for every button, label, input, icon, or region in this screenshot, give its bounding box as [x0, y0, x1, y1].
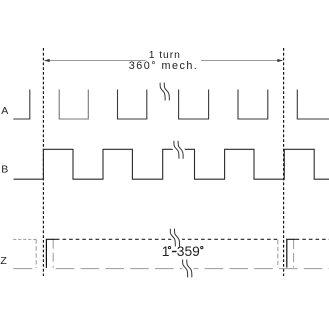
svg-text:360° mech.: 360° mech. [129, 60, 197, 72]
break mark B [174, 141, 183, 159]
break mark A [160, 83, 169, 101]
wire: Z low level gray dashed [56, 268, 329, 270]
dimension line "1 turn" [45, 60, 283, 62]
wire: Z gray falling edge option at 53 [52, 240, 54, 268]
turn marker left (dotted vertical) [42, 48, 44, 276]
wire: A initial low segment + rising edge [13, 90, 30, 120]
break mark Z bottom [183, 260, 192, 278]
wire: A low pulse 4 [238, 90, 268, 120]
wire: A low pulse 3 [179, 90, 209, 120]
svg-text:Z: Z [0, 255, 7, 267]
wire: Z high level dashed black [56, 238, 278, 240]
arrowhead right [277, 59, 283, 62]
wire: A low pulse 1 [59, 90, 88, 120]
arrowhead left [44, 59, 50, 62]
wire: Z low level gray dash left [13, 268, 32, 270]
break mark halo B [174, 141, 183, 159]
break mark halo Z bottom [183, 260, 192, 278]
wire: A low pulse 2 [118, 90, 147, 120]
wire: Z gray falling edge option at 293.6 [293, 240, 295, 267]
turn marker right (dotted vertical) [283, 48, 285, 276]
wire: Z high level dashed gray (left of turn marker) [13, 238, 37, 240]
wire: A low pulse 5 (cut at edge) [297, 90, 329, 120]
wire: Z index pulse right rising edge [287, 239, 296, 267]
break mark halo Z top [170, 229, 179, 247]
svg-text:B: B [1, 164, 8, 176]
svg-text:A: A [1, 105, 8, 117]
wire: Z index pulse left rising edge [46, 239, 56, 268]
wire: Z dashed gray falling edge at 36 [35, 239, 37, 268]
wire: B square wave [14, 149, 329, 179]
wire: Z dashed gray falling edge at 277.8 [277, 240, 279, 268]
break mark Z top [170, 229, 179, 247]
break mark halo A [160, 83, 169, 101]
wire: Z high level dashed black right [296, 238, 329, 240]
